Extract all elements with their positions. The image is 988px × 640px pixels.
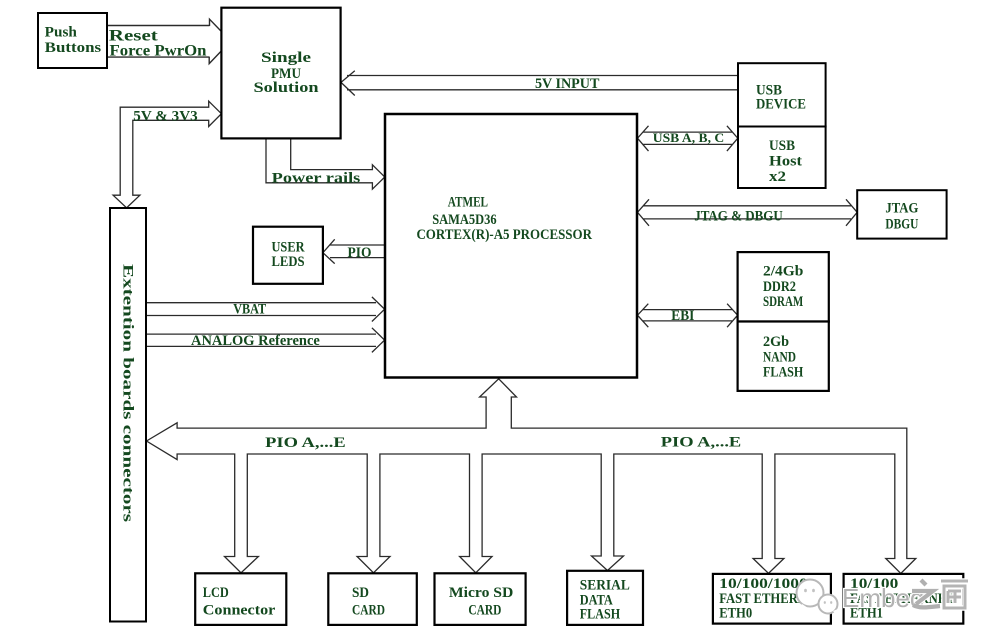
wire USB A,B,C double arrow bbox=[638, 126, 738, 151]
svg-text:JTAG & DBGU: JTAG & DBGU bbox=[694, 208, 783, 224]
svg-text:Host: Host bbox=[769, 153, 802, 169]
box DDR2 SDRAM bbox=[738, 252, 829, 321]
svg-text:Single: Single bbox=[261, 50, 311, 66]
svg-text:Power rails: Power rails bbox=[272, 170, 361, 186]
box SD CARD bbox=[328, 573, 417, 625]
svg-text:ANALOG Reference: ANALOG Reference bbox=[191, 333, 320, 349]
svg-text:ATMEL: ATMEL bbox=[448, 194, 488, 210]
svg-text:DBGU: DBGU bbox=[885, 217, 918, 233]
svg-text:PIO: PIO bbox=[348, 245, 372, 261]
svg-text:SAMA5D36: SAMA5D36 bbox=[432, 212, 497, 228]
wire Force PwrOn arrow from Push Buttons to PMU bbox=[107, 52, 221, 64]
wire VBAT arrow from Extention connectors to processor bbox=[146, 297, 385, 322]
box LCD Connector bbox=[195, 573, 286, 625]
svg-text:Embed: Embed bbox=[842, 583, 924, 613]
svg-text:Connector: Connector bbox=[203, 603, 276, 619]
svg-text:USB: USB bbox=[769, 138, 795, 154]
svg-text:SD: SD bbox=[352, 585, 369, 601]
svg-text:PIO A,...E: PIO A,...E bbox=[265, 435, 346, 451]
svg-text:CORTEX(R)-A5 PROCESSOR: CORTEX(R)-A5 PROCESSOR bbox=[416, 227, 592, 243]
svg-text:EBI: EBI bbox=[671, 308, 694, 324]
svg-text:x2: x2 bbox=[769, 169, 786, 185]
svg-text:FLASH: FLASH bbox=[580, 607, 621, 623]
svg-text:5V INPUT: 5V INPUT bbox=[535, 76, 599, 92]
wire ANALOG Reference arrow from Extention connectors to processor bbox=[146, 328, 385, 353]
box USB Host x2 bbox=[738, 127, 826, 189]
svg-text:Buttons: Buttons bbox=[45, 40, 102, 56]
wire Power rails pipe from PMU to processor bbox=[266, 138, 385, 189]
box USER LEDS bbox=[253, 227, 323, 284]
svg-text:DDR2: DDR2 bbox=[763, 279, 796, 295]
svg-text:5V & 3V3: 5V & 3V3 bbox=[133, 109, 197, 125]
box SERIAL DATA FLASH bbox=[567, 571, 643, 625]
svg-text:Micro SD: Micro SD bbox=[449, 585, 514, 601]
svg-text:Solution: Solution bbox=[254, 80, 320, 96]
box JTAG DBGU bbox=[857, 190, 946, 238]
watermark glyph 窗 bbox=[941, 581, 968, 608]
svg-text:LCD: LCD bbox=[203, 585, 229, 601]
svg-text:CARD: CARD bbox=[352, 603, 385, 619]
svg-text:SERIAL: SERIAL bbox=[580, 577, 630, 593]
box USB DEVICE bbox=[738, 63, 826, 126]
box Micro SD CARD bbox=[435, 573, 526, 625]
wire PIO arrow from processor to USER LEDS bbox=[323, 239, 385, 263]
box processor ATMEL SAMA5D36 bbox=[385, 114, 637, 378]
box Extention boards connectors bbox=[110, 208, 146, 622]
svg-text:Push: Push bbox=[45, 25, 78, 41]
svg-text:USB A, B, C: USB A, B, C bbox=[653, 131, 725, 145]
svg-text:Extention boards connectors: Extention boards connectors bbox=[120, 264, 136, 522]
svg-text:ETH0: ETH0 bbox=[719, 606, 752, 622]
svg-text:JTAG: JTAG bbox=[885, 201, 918, 217]
wire EBI double arrow bbox=[638, 304, 738, 328]
box ETH0 10/100/1000 FAST ETHERNET bbox=[713, 574, 831, 624]
svg-text:Force PwrOn: Force PwrOn bbox=[110, 42, 207, 59]
watermark glyph 之 bbox=[912, 580, 940, 607]
svg-text:10/100/1000: 10/100/1000 bbox=[719, 576, 808, 592]
svg-text:2Gb: 2Gb bbox=[763, 334, 789, 350]
wire PIO bus: left arrow to Extention connectors, up arrow to processor, branches to LCD, SD, Micro SD, SERIAL FLASH, ETH0, ETH1 bbox=[147, 379, 916, 574]
box Single PMU Solution U-PMU bbox=[221, 8, 340, 139]
box NAND FLASH bbox=[738, 322, 829, 391]
svg-text:FLASH: FLASH bbox=[763, 365, 804, 381]
wire 5V & 3V3 pipe to PMU and down to Extention connectors bbox=[113, 101, 221, 208]
svg-text:CARD: CARD bbox=[468, 603, 501, 619]
svg-text:PIO A,...E: PIO A,...E bbox=[661, 434, 742, 450]
watermark logo chat bubbles bbox=[797, 580, 841, 618]
svg-text:VBAT: VBAT bbox=[233, 302, 266, 318]
box Push Buttons bbox=[38, 13, 107, 68]
svg-text:DEVICE: DEVICE bbox=[756, 96, 806, 112]
wire 5V INPUT channel from USB DEVICE to PMU bbox=[341, 71, 738, 96]
svg-text:2/4Gb: 2/4Gb bbox=[763, 263, 803, 279]
box ETH1 10/100 FAST ETHERNET bbox=[844, 574, 964, 624]
wire Reset arrow from Push Buttons to PMU bbox=[107, 19, 221, 31]
wire JTAG & DBGU double arrow bbox=[638, 199, 858, 226]
svg-text:SDRAM: SDRAM bbox=[763, 294, 803, 310]
svg-text:LEDS: LEDS bbox=[272, 254, 305, 270]
svg-text:NAND: NAND bbox=[763, 349, 796, 365]
